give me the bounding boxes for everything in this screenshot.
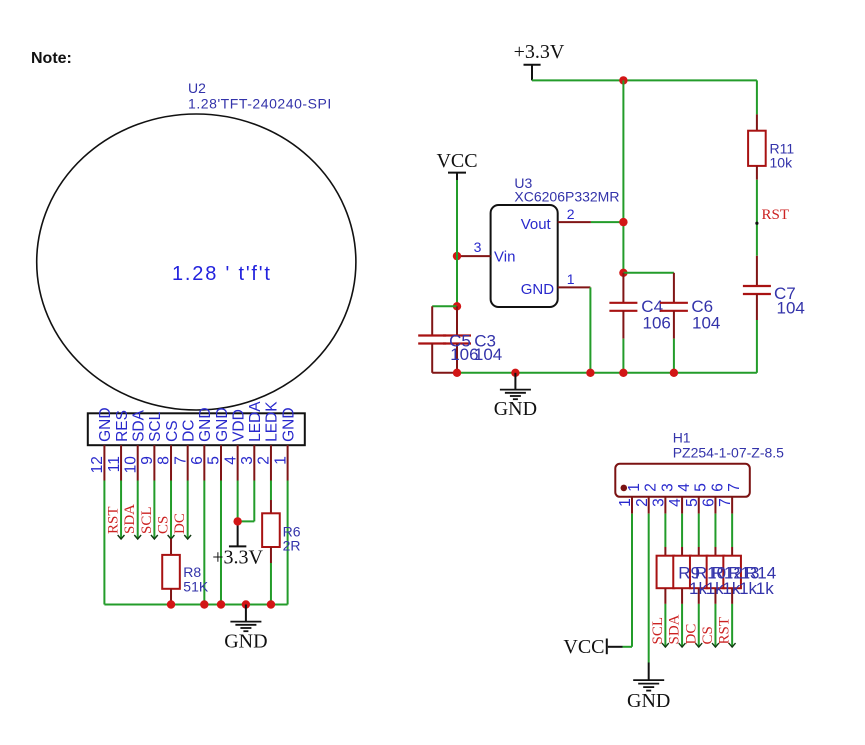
- capacitor C4 106: [609, 273, 670, 373]
- svg-text:104: 104: [692, 314, 720, 333]
- wire pin9 SCL: [153, 481, 155, 539]
- net label RST (H1): [717, 617, 733, 645]
- svg-text:GND: GND: [97, 407, 114, 441]
- svg-text:1.28 ' t'f't: 1.28 ' t'f't: [172, 263, 272, 285]
- wire pin12 GND: [103, 481, 105, 605]
- resistor R10 1k: [673, 514, 691, 648]
- wire pin7 DC: [187, 481, 189, 539]
- net label RST (right): [755, 207, 789, 225]
- svg-text:2: 2: [643, 483, 660, 492]
- svg-text:DC: DC: [180, 420, 197, 442]
- svg-text:GND: GND: [197, 407, 214, 441]
- svg-text:104: 104: [777, 299, 805, 318]
- ground rail (TFT): [104, 604, 287, 606]
- resistor R12 1k: [690, 514, 708, 648]
- svg-text:XC6206P332MR: XC6206P332MR: [514, 189, 619, 205]
- wire C5 top link: [432, 305, 457, 307]
- display module U2 1.28'TFT-240240-SPI: [37, 80, 356, 445]
- capacitor C6 104: [660, 273, 720, 373]
- wire C5 bottom link: [432, 372, 457, 374]
- svg-text:106: 106: [643, 314, 671, 333]
- svg-text:10k: 10k: [770, 155, 794, 171]
- wire C4-C6 link: [623, 272, 674, 274]
- wire +3.3V to R11: [756, 80, 758, 130]
- U3 pin 2 Vout: [558, 206, 624, 222]
- svg-text:+3.3V: +3.3V: [212, 547, 263, 569]
- svg-text:CS: CS: [164, 420, 181, 442]
- power +3.3V (top): [514, 41, 565, 80]
- svg-text:RST: RST: [106, 506, 122, 534]
- net label CS: [156, 516, 175, 539]
- svg-text:GND: GND: [280, 407, 297, 441]
- svg-text:4: 4: [676, 483, 693, 492]
- resistor R14 1k: [723, 514, 741, 648]
- svg-text:LEDK: LEDK: [264, 401, 281, 442]
- svg-text:RST: RST: [762, 207, 790, 223]
- svg-text:1: 1: [626, 483, 643, 492]
- U2 pin stubs: [104, 445, 287, 480]
- wire pin3 LEDA: [238, 481, 255, 522]
- wire pin8 CS: [170, 481, 172, 539]
- junction Vout node: [619, 218, 627, 226]
- wire +3.3V rail: [532, 79, 757, 81]
- net label RST: [106, 506, 125, 539]
- wire pin10 SDA: [137, 481, 139, 539]
- wire pin2 to GND: [648, 514, 650, 663]
- wire pin6 GND: [203, 481, 205, 605]
- svg-text:GND: GND: [627, 690, 670, 712]
- power VCC (H1): [563, 636, 606, 658]
- svg-text:+3.3V: +3.3V: [514, 41, 565, 63]
- ground rail (U3): [457, 372, 757, 374]
- U2 pin number labels: [89, 456, 289, 474]
- svg-text:5: 5: [693, 483, 710, 492]
- wire pin2 LEDK: [270, 481, 272, 501]
- resistor R11 10k: [748, 131, 794, 256]
- junction dots on U3 ground rail: [453, 369, 678, 377]
- svg-text:GND: GND: [494, 398, 537, 420]
- svg-text:2R: 2R: [283, 538, 301, 554]
- resistor R9 1k: [657, 514, 675, 648]
- svg-text:CS: CS: [700, 626, 716, 644]
- svg-text:SDA: SDA: [131, 409, 148, 442]
- junction C4 top: [619, 269, 627, 277]
- svg-text:RES: RES: [114, 410, 131, 442]
- svg-text:SDA: SDA: [122, 504, 138, 534]
- svg-text:51K: 51K: [183, 579, 209, 595]
- resistor R8 51K: [162, 539, 209, 605]
- label R9 1k: [678, 564, 707, 599]
- label R13 1k: [728, 564, 759, 599]
- capacitor C5 106: [418, 306, 446, 373]
- ground GND (H1): [627, 663, 670, 713]
- connector H1 PZ254-1-07-Z-8.5: [615, 430, 784, 497]
- svg-text:VCC: VCC: [436, 150, 477, 172]
- svg-text:SCL: SCL: [147, 411, 164, 442]
- text Note:: [31, 50, 72, 67]
- svg-text:VDD: VDD: [230, 409, 247, 442]
- svg-text:1k: 1k: [756, 579, 774, 598]
- svg-text:U2: U2: [188, 80, 206, 96]
- wire pin4 VDD: [237, 481, 239, 522]
- junction +3.3V rail: [619, 76, 627, 84]
- svg-text:H1: H1: [673, 430, 691, 446]
- svg-text:7: 7: [726, 483, 743, 492]
- net label SCL (H1): [650, 617, 666, 645]
- svg-text:DC: DC: [683, 624, 699, 645]
- svg-text:LEDA: LEDA: [247, 401, 264, 442]
- svg-text:1: 1: [567, 271, 575, 287]
- svg-text:RST: RST: [717, 617, 733, 645]
- svg-text:SCL: SCL: [650, 617, 666, 645]
- junction dots on TFT ground rail: [167, 600, 275, 608]
- wire Vout node to C4: [622, 222, 624, 273]
- label R10 1k: [695, 564, 726, 599]
- svg-text:GND: GND: [521, 281, 555, 298]
- svg-text:DC: DC: [172, 513, 188, 534]
- svg-text:SDA: SDA: [667, 614, 683, 644]
- ground GND (TFT): [224, 605, 267, 653]
- power VCC (U3): [436, 150, 477, 180]
- svg-text:3: 3: [659, 483, 676, 492]
- svg-text:1.28'TFT-240240-SPI: 1.28'TFT-240240-SPI: [188, 96, 332, 112]
- svg-text:CS: CS: [156, 516, 172, 534]
- label R14 1k: [745, 564, 776, 599]
- svg-text:VCC: VCC: [563, 636, 604, 658]
- junction VCC/C5/C3: [453, 302, 461, 310]
- net label SDA: [122, 504, 141, 539]
- U2 pin name labels: [97, 401, 297, 442]
- svg-text:3: 3: [474, 239, 482, 255]
- svg-text:104: 104: [474, 345, 502, 364]
- U3 pin 3 Vin: [457, 239, 491, 256]
- junction VDD/LEDA +3.3V: [233, 517, 241, 525]
- wire pin1 GND: [287, 481, 289, 605]
- svg-text:GND: GND: [214, 407, 231, 441]
- wire VCC down: [456, 180, 458, 306]
- net label DC: [172, 513, 191, 539]
- svg-text:6: 6: [709, 483, 726, 492]
- svg-text:Note:: Note:: [31, 50, 72, 67]
- ground GND (U3): [494, 373, 537, 420]
- H1 pin stubs: [632, 497, 732, 514]
- resistor R6 2R: [262, 500, 301, 605]
- svg-text:SCL: SCL: [139, 506, 155, 534]
- net label CS (H1): [700, 626, 716, 644]
- capacitor C7 104: [743, 256, 805, 373]
- wire pin11 RST: [120, 481, 122, 539]
- capacitor C3 104: [443, 306, 471, 373]
- net label SDA (H1): [667, 614, 683, 644]
- net label SCL: [139, 506, 158, 539]
- label C3 104: [474, 332, 502, 365]
- net label DC (H1): [683, 624, 699, 645]
- H1 pin numbers (inside): [626, 483, 743, 492]
- U3 pin 1 GND: [558, 271, 591, 373]
- svg-text:Vout: Vout: [521, 216, 552, 233]
- wire +3.3V to Vout node: [622, 80, 624, 222]
- svg-text:PZ254-1-07-Z-8.5: PZ254-1-07-Z-8.5: [673, 444, 784, 460]
- wire pin5 GND: [220, 481, 222, 605]
- label R12 1k: [712, 564, 743, 599]
- junction Vin/VCC: [453, 252, 461, 260]
- wire pin1 to VCC: [608, 514, 632, 647]
- resistor R13 1k: [707, 514, 725, 648]
- label C5 106: [449, 332, 478, 365]
- power +3.3V (TFT): [212, 523, 263, 569]
- svg-text:Vin: Vin: [494, 249, 515, 266]
- regulator U3 XC6206P332MR: [491, 175, 620, 307]
- H1 pin numbers (outside): [617, 498, 734, 507]
- svg-text:2: 2: [567, 206, 575, 222]
- svg-text:GND: GND: [224, 631, 267, 653]
